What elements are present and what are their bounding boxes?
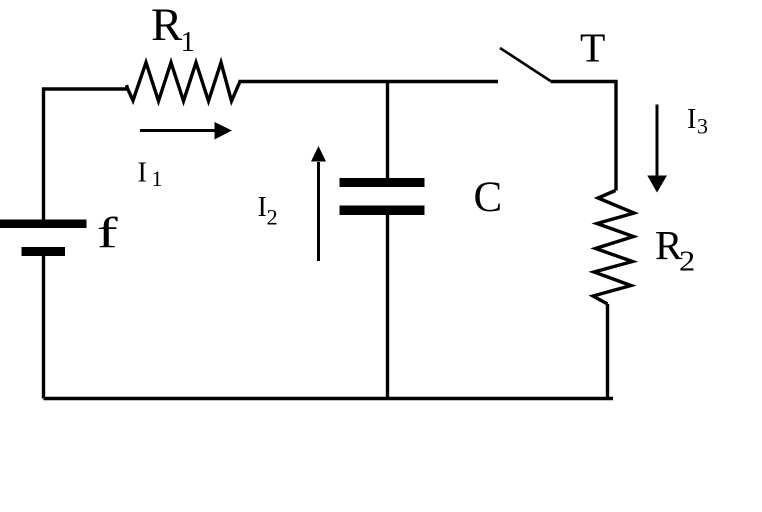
wire: switch to right corner <box>551 82 617 191</box>
switch T blade <box>500 48 551 81</box>
svg-text:1: 1 <box>181 26 196 58</box>
resistor R2 <box>593 191 634 305</box>
wire: R2 bottom lead to bottom rail <box>606 304 609 399</box>
svg-text:C: C <box>474 174 503 221</box>
wire: bottom rail <box>44 397 614 400</box>
wire: capacitor bottom lead <box>386 215 389 399</box>
svg-text:3: 3 <box>697 114 708 139</box>
battery f bottom plate <box>22 247 66 256</box>
current arrow I3 <box>656 105 659 177</box>
svg-text:I: I <box>138 158 147 189</box>
svg-text:2: 2 <box>679 245 695 277</box>
node junction: capacitor branch top <box>386 82 389 180</box>
svg-text:I: I <box>258 192 267 223</box>
svg-text:I: I <box>687 104 696 135</box>
resistor R1 <box>127 63 241 102</box>
wire: left vertical below battery <box>42 255 45 399</box>
svg-text:T: T <box>580 25 605 71</box>
capacitor C top plate <box>340 178 425 187</box>
wire: top horizontal from R1 to switch <box>239 80 499 83</box>
svg-text:2: 2 <box>267 205 278 230</box>
svg-text:f: f <box>97 208 118 256</box>
svg-text:R: R <box>151 0 183 51</box>
current arrow I1 <box>140 129 217 132</box>
capacitor C bottom plate <box>340 206 425 216</box>
current arrow I2 <box>317 162 320 261</box>
svg-text:1: 1 <box>152 166 163 191</box>
battery f top plate <box>0 220 87 229</box>
wire: top-left horizontal from battery branch to R1 <box>44 89 128 223</box>
